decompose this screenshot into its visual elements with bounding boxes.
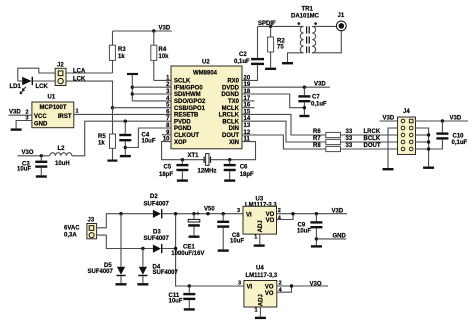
svg-text:10uF: 10uF xyxy=(17,167,31,173)
connector J2 xyxy=(55,62,66,85)
junction bus row5 xyxy=(427,147,430,150)
diode D2 xyxy=(144,194,170,219)
svg-text:1000uF/16V: 1000uF/16V xyxy=(171,251,204,257)
svg-text:SUF4007: SUF4007 xyxy=(153,270,179,276)
capacitor C4 xyxy=(119,121,156,155)
ground C11 xyxy=(184,308,195,310)
diode D5 xyxy=(88,214,126,283)
IC U1 MCP100T xyxy=(25,95,78,128)
svg-text:0,3A: 0,3A xyxy=(64,233,77,239)
svg-text:VI: VI xyxy=(247,285,253,291)
svg-text:VO: VO xyxy=(266,218,275,224)
svg-text:J1: J1 xyxy=(338,13,345,19)
svg-text:GND: GND xyxy=(333,233,347,239)
wire TX0 stub pin17 xyxy=(242,100,255,102)
wire R8 to J4 DOUT xyxy=(341,148,398,150)
wire J3 bottom to D3 xyxy=(97,235,154,248)
wire U1 RST to U2 RESETB xyxy=(74,113,171,115)
svg-text:10uF: 10uF xyxy=(297,228,311,234)
junction rail/D3 xyxy=(174,212,177,215)
wire J4 right pin5 stub xyxy=(416,148,429,150)
junction CE1 xyxy=(192,212,195,215)
svg-text:BCLK: BCLK xyxy=(222,119,239,125)
junction U4 VO xyxy=(290,284,293,287)
wire J4 right pin3 stub xyxy=(416,134,429,136)
svg-text:SUF4007: SUF4007 xyxy=(144,236,170,242)
svg-text:3: 3 xyxy=(238,280,241,286)
wire PGND branch xyxy=(125,128,171,148)
svg-text:1k: 1k xyxy=(118,54,125,60)
ground C8 xyxy=(218,249,229,251)
svg-text:C7: C7 xyxy=(312,94,320,100)
svg-text:U2: U2 xyxy=(202,60,210,66)
svg-text:10uH: 10uH xyxy=(55,161,70,167)
svg-text:LRCK: LRCK xyxy=(364,129,381,135)
svg-text:IRST: IRST xyxy=(58,114,72,120)
svg-text:CLKOUT: CLKOUT xyxy=(174,133,199,139)
ground C3 xyxy=(36,175,47,177)
svg-text:BCLK: BCLK xyxy=(364,136,381,142)
ground R2 xyxy=(265,68,276,70)
svg-text:0,1uF: 0,1uF xyxy=(452,140,468,146)
wire D2 cathode to rail xyxy=(162,213,243,215)
svg-text:SUF4007: SUF4007 xyxy=(88,269,114,275)
resistor R4 xyxy=(151,31,169,80)
wire V50 down branch to U4 xyxy=(176,249,244,287)
svg-text:SCLK: SCLK xyxy=(174,79,191,85)
junction pin2 xyxy=(131,86,134,89)
wire LCA net xyxy=(66,72,113,74)
connector J4 xyxy=(398,109,416,155)
ground J4 right xyxy=(423,167,434,169)
wire J3 top to D2 xyxy=(97,214,154,228)
svg-text:XOP: XOP xyxy=(174,140,187,146)
junction C10 xyxy=(441,119,444,122)
U2 right pin numbers xyxy=(244,75,251,142)
junction DGND/C7 xyxy=(303,106,306,109)
svg-text:PVDD: PVDD xyxy=(174,119,191,125)
svg-text:C6: C6 xyxy=(240,165,248,171)
junction R2/SPDIF xyxy=(269,25,272,28)
wire DOUT to R8 xyxy=(242,135,326,149)
ground D5 xyxy=(116,283,127,285)
svg-text:SUF4007: SUF4007 xyxy=(144,201,170,207)
ground D4 xyxy=(137,283,148,285)
capacitor C8 xyxy=(217,214,244,250)
IC U2 WM8804 xyxy=(171,60,242,149)
svg-text:V3D: V3D xyxy=(314,82,326,88)
ground C6 xyxy=(224,179,235,181)
transformer TR1 xyxy=(291,7,320,54)
svg-text:V3D: V3D xyxy=(159,26,171,32)
svg-text:RESETB: RESETB xyxy=(174,113,199,119)
svg-text:18pF: 18pF xyxy=(240,172,254,178)
svg-text:U1: U1 xyxy=(48,95,56,101)
wire DGND pin18 xyxy=(242,94,304,108)
resistor R7 xyxy=(313,136,341,145)
svg-text:GND: GND xyxy=(34,121,48,127)
svg-text:LCK: LCK xyxy=(36,84,49,90)
svg-text:1: 1 xyxy=(76,109,79,115)
svg-text:D3: D3 xyxy=(153,230,161,236)
capacitor C5 xyxy=(159,160,188,180)
svg-text:IFM/GPO0: IFM/GPO0 xyxy=(174,85,203,91)
wire LCK net xyxy=(66,81,113,108)
wire SPDIF net xyxy=(258,25,304,27)
svg-text:L2: L2 xyxy=(58,146,66,152)
capacitor C9 xyxy=(297,214,322,246)
wire V3D rail top xyxy=(113,30,173,32)
svg-text:TR1: TR1 xyxy=(302,7,314,13)
svg-text:DGND: DGND xyxy=(221,92,239,98)
svg-text:VO: VO xyxy=(265,285,274,291)
ground U4 xyxy=(255,317,266,319)
wire CSB pin5 xyxy=(113,107,172,109)
svg-text:LD1: LD1 xyxy=(10,84,22,90)
svg-text:LCK: LCK xyxy=(73,76,86,82)
junction V50 xyxy=(206,212,209,215)
junction C8 xyxy=(222,212,225,215)
wire U1 VCC xyxy=(9,114,32,116)
svg-text:33: 33 xyxy=(346,143,353,149)
resistor R5 xyxy=(98,134,116,160)
capacitor C6 xyxy=(224,160,254,180)
junction C5 xyxy=(181,158,184,161)
wire U3 VO2 xyxy=(277,213,348,215)
svg-text:MCP100T: MCP100T xyxy=(40,105,67,111)
svg-text:V50: V50 xyxy=(204,207,215,213)
svg-text:R7: R7 xyxy=(313,136,321,142)
svg-text:+: + xyxy=(196,211,200,217)
wire DVDD pin19 to V3D xyxy=(242,86,330,88)
svg-text:XIN: XIN xyxy=(229,140,239,146)
wire R6 to J4 LRCK xyxy=(341,134,398,136)
svg-text:VI: VI xyxy=(246,212,252,218)
resistor R3 xyxy=(109,31,126,73)
svg-text:SDO/GPO2: SDO/GPO2 xyxy=(174,99,206,105)
svg-text:CE1: CE1 xyxy=(183,245,195,251)
ground J4 left xyxy=(383,168,394,170)
svg-text:10uF: 10uF xyxy=(230,238,244,244)
ground TR1 xyxy=(282,62,293,64)
svg-text:ADJ: ADJ xyxy=(258,220,264,232)
wire crystal to XIN xyxy=(210,142,255,160)
capacitor CE1 electrolytic xyxy=(171,211,204,257)
svg-text:J4: J4 xyxy=(403,109,410,115)
ground U1 xyxy=(11,128,22,130)
svg-text:DA101MC: DA101MC xyxy=(291,14,320,20)
wire LRCLK to R6 xyxy=(242,114,326,135)
junction bus row3 xyxy=(427,133,430,136)
svg-text:10uF: 10uF xyxy=(142,138,156,144)
svg-text:DOUT: DOUT xyxy=(364,143,381,149)
svg-text:VO: VO xyxy=(265,291,274,297)
junction C7 xyxy=(303,86,306,89)
junction pin3 xyxy=(131,92,134,95)
junction bus row4 xyxy=(427,140,430,143)
wire TR1 secondary bottom to J1 xyxy=(312,30,341,52)
svg-text:LM1117-3,3: LM1117-3,3 xyxy=(246,273,278,279)
wire MCLK stub pin16 xyxy=(242,107,255,109)
svg-text:WM8804: WM8804 xyxy=(193,71,218,77)
svg-text:MCLK: MCLK xyxy=(222,106,240,112)
svg-text:1: 1 xyxy=(254,235,257,241)
svg-text:D2: D2 xyxy=(150,194,158,200)
svg-text:V3D: V3D xyxy=(450,115,462,121)
junction C6 xyxy=(228,158,231,161)
ground for U2 pins 2-4 (inverted) xyxy=(127,73,138,101)
svg-text:33: 33 xyxy=(346,129,353,135)
resistor R2 xyxy=(268,26,286,67)
svg-text:3: 3 xyxy=(237,208,240,214)
ground CE1 xyxy=(189,236,200,238)
wire RX0 pin20 to C2 xyxy=(242,64,258,80)
junction C9 xyxy=(315,212,318,215)
wire SDI/HWM pin3 xyxy=(132,93,171,95)
junction C3 xyxy=(40,154,43,157)
svg-text:R5: R5 xyxy=(98,134,106,140)
svg-text:R8: R8 xyxy=(313,143,321,149)
svg-text:DVDD: DVDD xyxy=(222,85,240,91)
junction GND branch xyxy=(315,237,318,240)
svg-text:RX0: RX0 xyxy=(227,79,239,85)
svg-text:V3O: V3O xyxy=(22,150,34,156)
wire U3 VO4 xyxy=(277,214,294,220)
svg-text:6VAC: 6VAC xyxy=(64,225,80,231)
wire V3D to J4 pin row1 left xyxy=(380,120,398,122)
U2 right pin names xyxy=(219,79,240,146)
svg-text:V3D: V3D xyxy=(383,115,395,121)
wire TR1 secondary top to J1 xyxy=(312,25,336,27)
svg-text:R3: R3 xyxy=(118,47,126,53)
svg-text:C2: C2 xyxy=(239,52,247,58)
wire IFM/GPO0 pin2 xyxy=(132,86,171,88)
svg-text:13: 13 xyxy=(244,123,251,129)
svg-text:10k: 10k xyxy=(159,54,170,60)
svg-text:1k: 1k xyxy=(98,141,105,147)
svg-text:18pF: 18pF xyxy=(159,172,173,178)
wire SCLK pin1 xyxy=(154,79,171,81)
wire U3 ADJ xyxy=(259,234,261,244)
svg-text:J3: J3 xyxy=(88,218,95,224)
wire XOP pin10 to crystal xyxy=(162,142,205,160)
U2 left pin numbers xyxy=(163,75,170,142)
wire GND xyxy=(316,238,346,240)
svg-text:SDI/HWM: SDI/HWM xyxy=(174,92,201,98)
svg-text:V3D: V3D xyxy=(332,208,344,214)
svg-text:LCA: LCA xyxy=(73,69,86,75)
svg-text:CSB/GPO1: CSB/GPO1 xyxy=(174,106,206,112)
svg-text:75: 75 xyxy=(277,44,284,50)
wire TR1 primary bottom to ground xyxy=(288,53,304,62)
ground C5 xyxy=(177,179,188,181)
junction C4/PVDD xyxy=(124,120,127,123)
wire U4 VO2 xyxy=(277,285,328,287)
svg-text:ADJ: ADJ xyxy=(259,294,265,306)
svg-text:12MHz: 12MHz xyxy=(198,168,217,174)
junction C4 bottom / PGND branch xyxy=(124,146,127,149)
wire CLKOUT stub pin9 xyxy=(162,134,171,136)
svg-text:33: 33 xyxy=(346,136,353,142)
svg-text:U3: U3 xyxy=(256,196,264,202)
regulator U4 LM1117-3,3 xyxy=(238,265,283,313)
LED LD1 xyxy=(10,68,56,94)
wire L2 to PVDD xyxy=(72,121,171,156)
svg-text:C10: C10 xyxy=(453,133,465,139)
ground U3 xyxy=(254,244,265,246)
ground C7 xyxy=(299,115,309,117)
wire J4 right V3D xyxy=(416,120,469,122)
diode D4 xyxy=(138,249,178,284)
capacitor C10 xyxy=(429,121,468,149)
svg-text:C5: C5 xyxy=(164,165,172,171)
junction D3 row xyxy=(174,247,177,250)
svg-text:10uF: 10uF xyxy=(169,298,183,304)
ground C4 xyxy=(120,155,131,157)
diode D3 xyxy=(144,230,170,254)
junction C11 xyxy=(188,284,191,287)
svg-text:V3O: V3O xyxy=(310,281,322,287)
svg-text:0,1uF: 0,1uF xyxy=(234,59,250,65)
svg-text:2: 2 xyxy=(279,280,282,286)
svg-text:R6: R6 xyxy=(313,129,321,135)
capacitor C11 xyxy=(169,286,196,308)
wire R7 to J4 BCLK xyxy=(341,141,398,143)
svg-text:J2: J2 xyxy=(57,62,64,68)
svg-text:DOUT: DOUT xyxy=(222,133,239,139)
wire U4 VO4 xyxy=(277,286,292,292)
svg-text:0,1uF: 0,1uF xyxy=(311,101,327,107)
svg-text:4: 4 xyxy=(278,215,282,221)
svg-text:SPDIF: SPDIF xyxy=(258,21,276,27)
resistor R8 xyxy=(313,143,341,152)
wire BCLK to R7 xyxy=(242,121,326,142)
wire V3O xyxy=(17,155,50,157)
wire J4 left gnd bus xyxy=(388,128,398,168)
crystal XT1 xyxy=(188,153,217,174)
regulator U3 LM1117-3,3 xyxy=(237,196,282,240)
svg-text:XT1: XT1 xyxy=(188,153,200,159)
connector J1 xyxy=(336,13,346,31)
svg-text:R4: R4 xyxy=(159,47,167,53)
wire D3 cathode up to rail and down to U4 xyxy=(162,214,175,249)
svg-text:DIN: DIN xyxy=(229,126,239,132)
wire U1 GND xyxy=(16,121,32,129)
connector J3 xyxy=(87,218,97,239)
junction U3 VO xyxy=(291,212,294,215)
ground R5 xyxy=(107,160,117,162)
capacitor C7 xyxy=(298,87,327,115)
svg-text:LRCLK: LRCLK xyxy=(219,113,240,119)
capacitor C2 xyxy=(234,26,264,65)
svg-text:TX0: TX0 xyxy=(228,99,240,105)
junction V3D/R4 xyxy=(152,29,155,32)
wire J4 right gnd bus xyxy=(416,128,429,167)
svg-text:VCC: VCC xyxy=(34,114,47,120)
wire J4 right pin4 stub xyxy=(416,141,429,143)
svg-text:PGND: PGND xyxy=(174,126,192,132)
svg-text:1: 1 xyxy=(254,308,257,314)
svg-text:U4: U4 xyxy=(256,265,264,271)
junction D4 tap xyxy=(141,247,144,250)
wire LCK to R5 xyxy=(112,108,114,134)
wire U4 ADJ xyxy=(259,307,261,317)
junction LCK/CSB xyxy=(111,106,114,109)
ground C9 xyxy=(311,245,322,247)
inductor L2 xyxy=(50,146,72,167)
wire SDO/GPO2 pin4 xyxy=(132,100,171,102)
U2 left pin names xyxy=(174,79,206,146)
capacitor C3 xyxy=(17,156,47,176)
junction D5 tap xyxy=(119,212,122,215)
resistor R6 xyxy=(313,129,341,138)
